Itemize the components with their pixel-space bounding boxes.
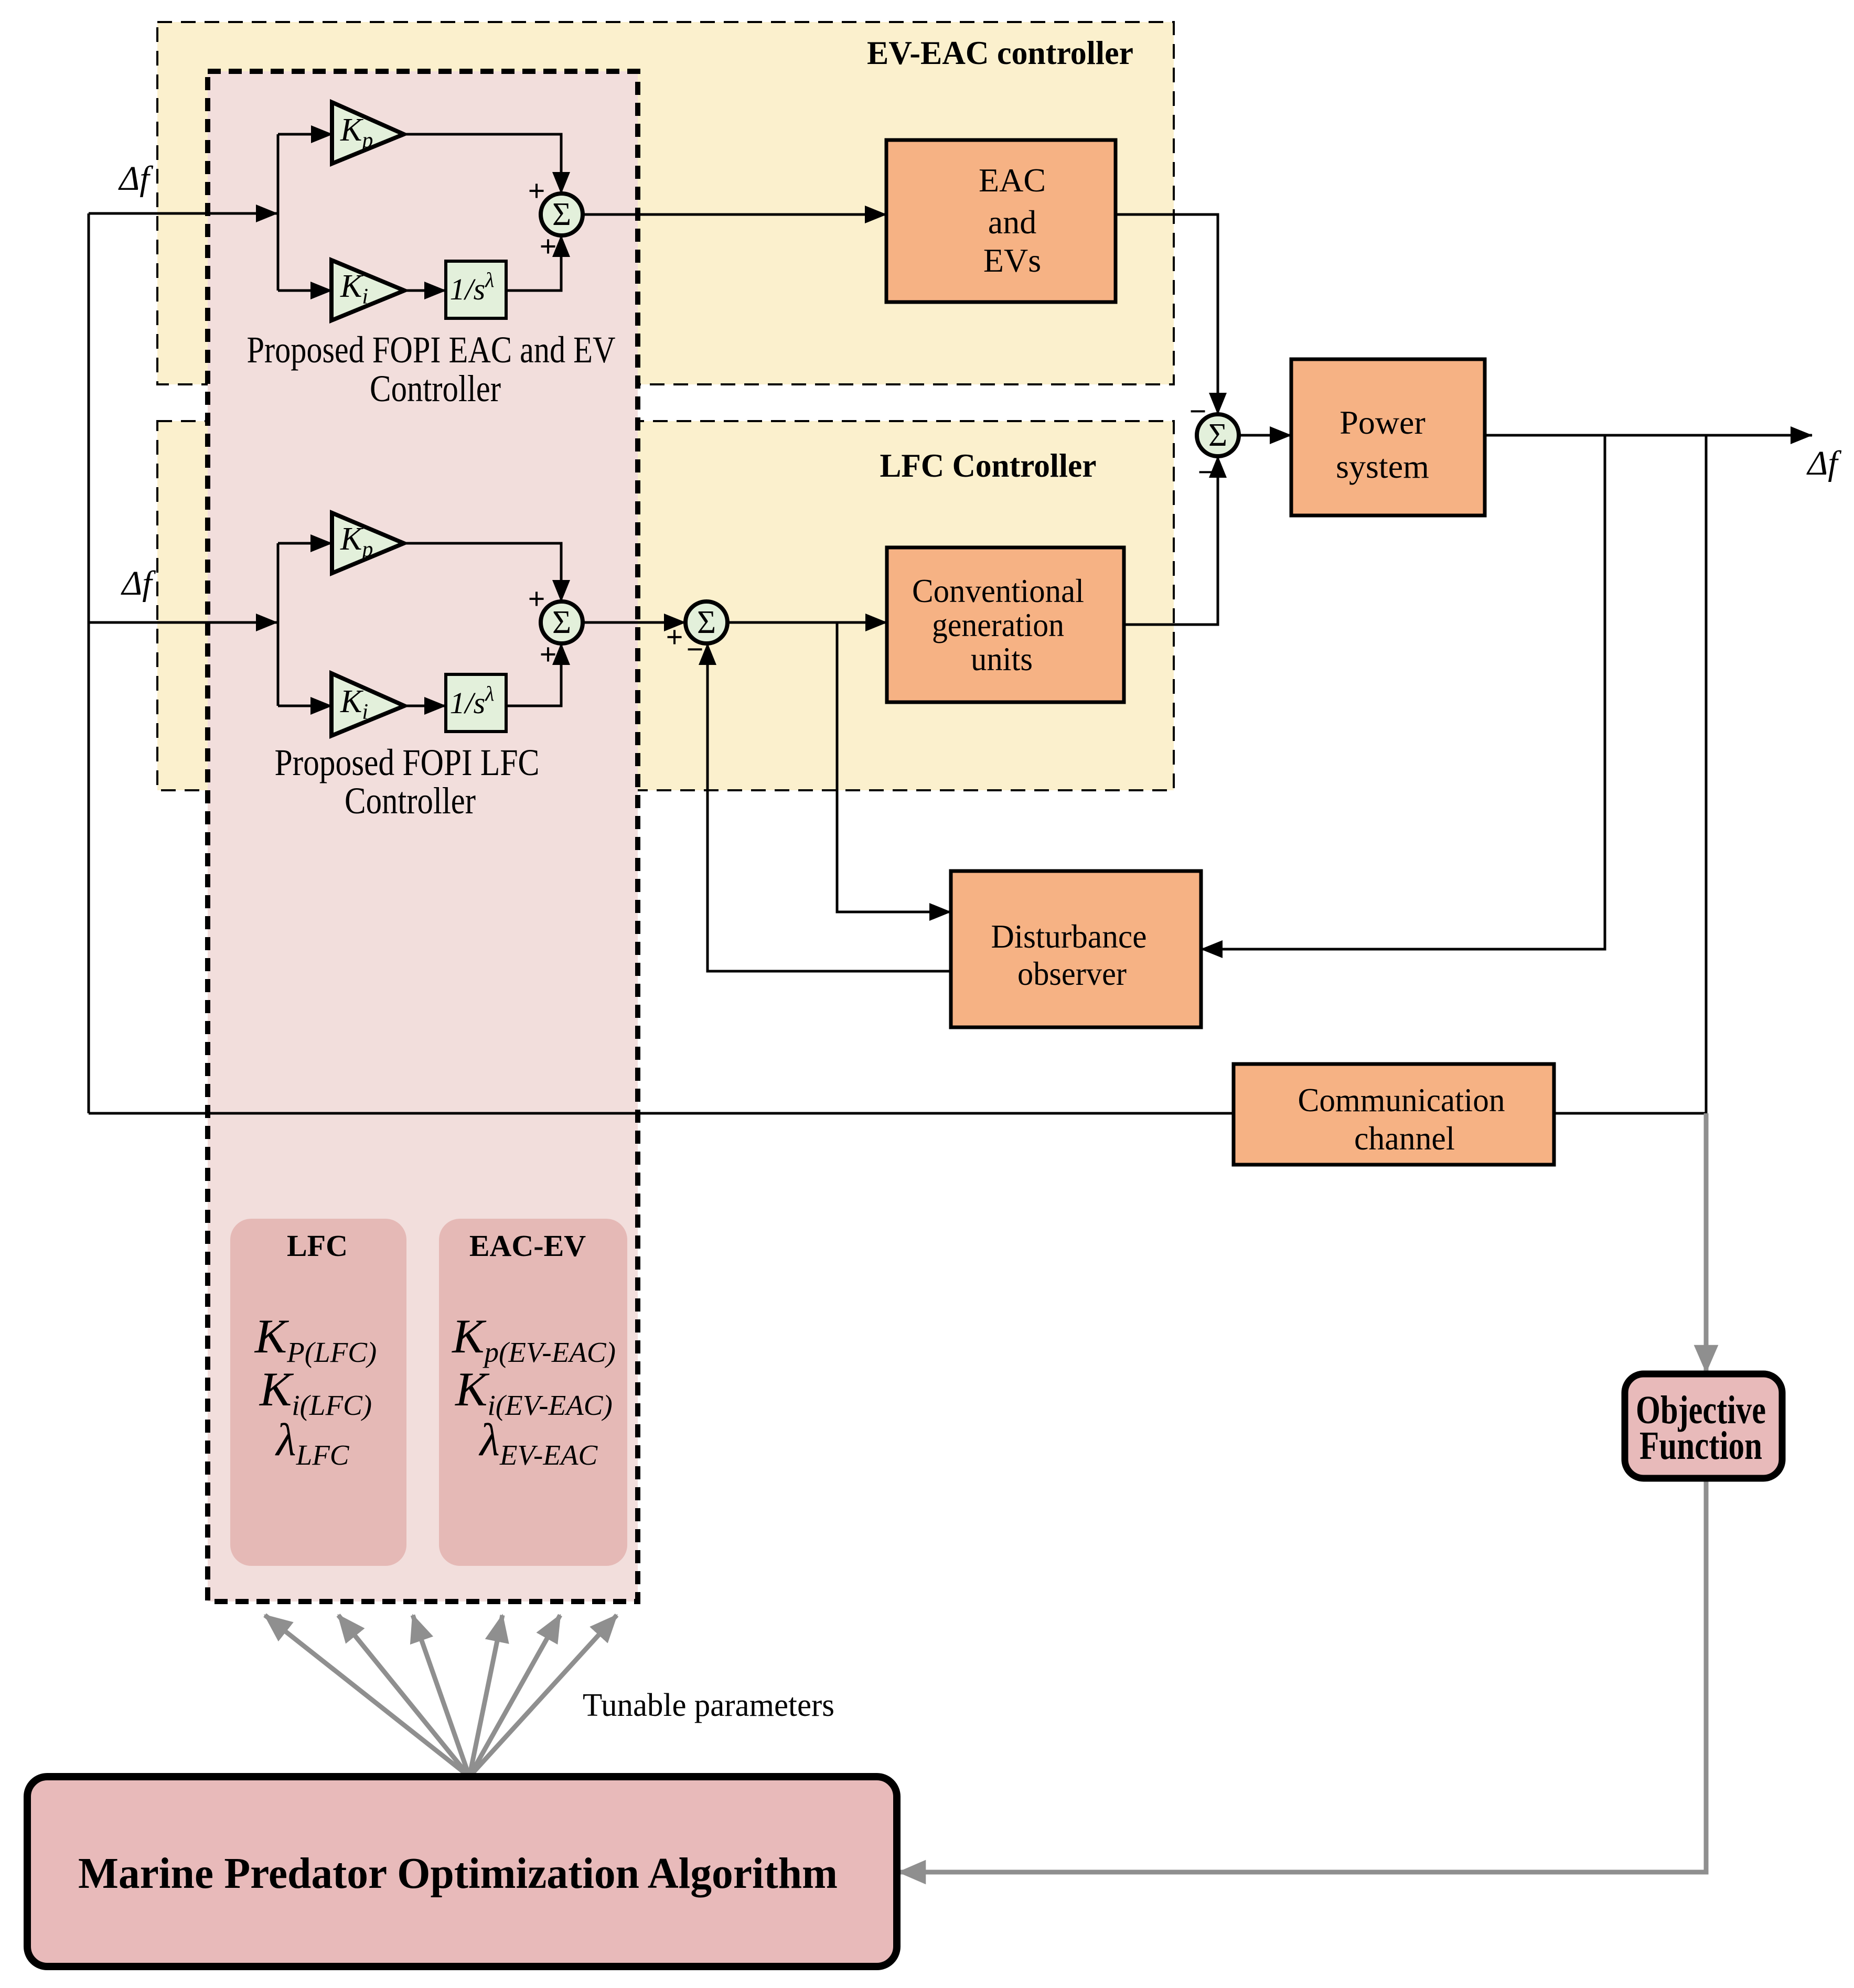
wire: S4 to S3 [583,621,685,624]
svg-text:+: + [539,230,556,264]
wire: left feedback vertical [88,213,90,1113]
wire: gray fan arrow 4 [469,1615,502,1777]
wire: observer output to S3 bottom [708,643,951,971]
EAC-EV parameter panel [439,1219,627,1566]
summer S2 [1197,414,1239,456]
LFC controller yellow region [157,421,1174,790]
svg-text:+: + [666,620,683,654]
wire: branch to Kp lfc [278,542,332,545]
svg-text:EV-EAC controller: EV-EAC controller [867,34,1133,71]
wire: integrator lfc to sum S4 [506,643,561,706]
svg-text:+: + [528,582,545,616]
LFC parameter panel [230,1219,406,1566]
wire: branch to Ki top [278,289,332,292]
svg-text:EAC: EAC [979,162,1046,199]
wire: Ki top to integrator [404,289,446,292]
gain Ki (EAC-EV) [331,260,404,320]
wire: Kp top output to sum S1 [404,134,561,194]
wire: feedback vertical to comm line [1705,435,1708,1113]
svg-text:Function: Function [1639,1424,1762,1468]
wire: power system output [1485,434,1812,437]
svg-text:Disturbance: Disturbance [991,918,1147,955]
svg-text:−: − [1197,455,1215,489]
svg-text:+: + [528,174,545,208]
svg-text:observer: observer [1017,955,1127,992]
wire: gray objective to MPOA [899,1478,1706,1872]
svg-text:channel: channel [1354,1120,1455,1157]
wire: branch to Ki lfc [278,705,332,707]
wire: gray fan arrow 6 [469,1615,617,1777]
wire: conventional output to S2 bottom [1124,456,1218,625]
summer S4 [541,601,583,643]
wire: gray to objective function [1704,1113,1709,1372]
wire: top branch vertical [277,134,280,291]
svg-text:Marine Predator Optimization A: Marine Predator Optimization Algorithm [78,1849,838,1898]
summer S3 [685,601,727,643]
svg-text:Communication: Communication [1298,1081,1505,1119]
wire: Kp lfc output to sum S4 [404,543,561,601]
wire: S2 to power system [1239,434,1291,437]
svg-text:units: units [971,640,1033,678]
svg-text:Power: Power [1339,404,1426,441]
svg-text:Δf: Δf [120,564,156,603]
block Conventional generation units [887,547,1124,702]
wire: Ki lfc to integrator [404,705,446,707]
svg-text:Tunable parameters: Tunable parameters [583,1688,834,1723]
svg-text:Δf: Δf [1806,444,1841,482]
svg-text:Proposed FOPI LFC: Proposed FOPI LFC [275,742,540,783]
proposed controllers pink dashed region [208,71,638,1602]
svg-text:EAC-EV: EAC-EV [469,1229,586,1263]
wire: branch to Kp top [278,133,333,136]
block Objective Function [1625,1374,1782,1478]
svg-text:Controller: Controller [345,780,476,822]
wire: feedback to observer right [1201,435,1605,949]
block Marine Predator Optimization Algorithm [27,1777,897,1966]
svg-text:system: system [1336,448,1429,485]
svg-text:and: and [988,203,1036,241]
svg-text:−: − [1189,394,1206,428]
wire: communication channel line [89,1112,1706,1115]
wire: gray fan arrow 1 [265,1615,469,1777]
svg-text:Σ: Σ [552,197,571,232]
svg-text:+: + [539,638,556,672]
svg-text:Controller: Controller [370,368,501,410]
wire: gray fan arrow 3 [413,1615,469,1777]
EV-EAC controller yellow region [157,22,1174,384]
svg-text:Σ: Σ [552,605,571,640]
wire: junction down to observer left [837,622,951,912]
svg-text:Conventional: Conventional [912,572,1084,609]
svg-text:Δf: Δf [117,159,153,198]
integrator 1/s^lambda (LFC) [446,674,506,732]
gain Kp (EAC-EV) [332,102,404,164]
svg-text:LFC Controller: LFC Controller [880,447,1097,484]
wire: EAC output to S2 top [1116,214,1218,414]
gain Ki (LFC) [331,673,404,736]
wire: integrator to sum S1 [506,235,561,291]
block Power system [1291,359,1485,515]
summer S1 [541,194,583,235]
svg-text:generation: generation [932,606,1064,643]
svg-text:EVs: EVs [983,242,1041,279]
wire: S3 to conventional units [727,621,887,624]
wire: df input top [89,212,277,215]
wire: S1 to EAC and EVs [583,213,886,216]
wire: gray fan arrow 2 [338,1615,469,1777]
integrator 1/s^lambda (EAC-EV) [446,261,506,318]
svg-text:Proposed FOPI EAC and EV: Proposed FOPI EAC and EV [247,329,616,371]
svg-text:LFC: LFC [287,1229,348,1263]
block EAC and EVs [886,140,1116,302]
svg-text:−: − [686,632,703,667]
gain Kp (LFC) [332,513,404,573]
svg-text:Σ: Σ [1208,417,1227,453]
block Disturbance observer [951,871,1201,1027]
block Communication channel [1234,1064,1554,1165]
wire: gray fan arrow 5 [469,1615,560,1777]
wire: df input lower [89,621,277,624]
wire: lower branch vertical [277,543,280,706]
